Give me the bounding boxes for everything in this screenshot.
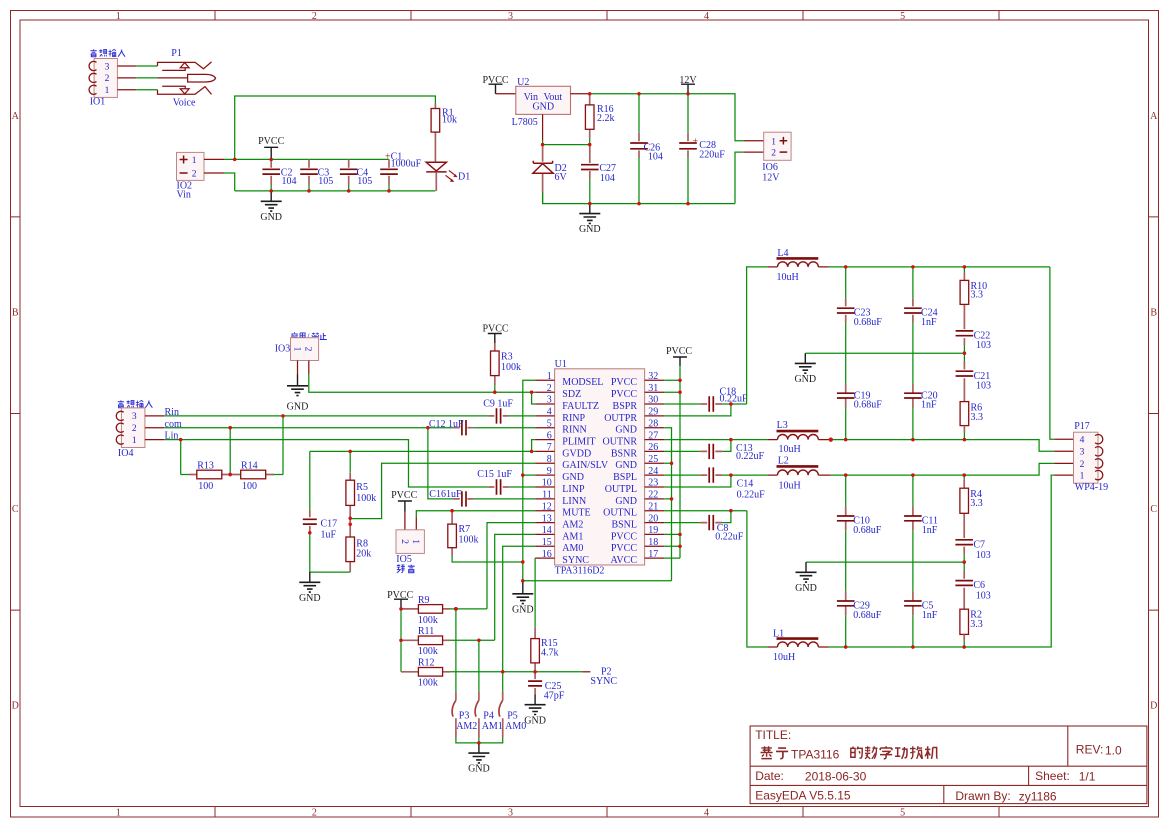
pin stubs P17 [1054, 439, 1073, 475]
wire AM1 (pin14) [495, 534, 535, 640]
ground symbol (switches) [468, 743, 489, 763]
svg-text:3.3: 3.3 [971, 289, 984, 300]
svg-text:PVCC: PVCC [666, 346, 692, 357]
wire GVDD row [310, 450, 535, 452]
svg-text:17: 17 [648, 549, 658, 560]
svg-text:Vin: Vin [177, 190, 191, 201]
junction dots overlay [179, 92, 966, 745]
resistor R7 [448, 511, 479, 556]
capacitor C11 [904, 475, 938, 591]
ground symbol (C25) [525, 695, 546, 715]
connector IO5 body [396, 530, 424, 554]
svg-text:B: B [1150, 308, 1157, 319]
svg-text:100k: 100k [356, 493, 376, 504]
wire com branch to C16 (LINN) [428, 428, 535, 499]
svg-text:C: C [12, 504, 19, 515]
wire snubber GND row (top) [805, 352, 964, 354]
capacitor C15 [477, 469, 512, 495]
capacitor C7 [955, 540, 990, 562]
resistor R1 [431, 104, 457, 163]
svg-text:GND: GND [562, 472, 584, 483]
svg-text:1uF: 1uF [321, 530, 337, 541]
svg-text:1: 1 [105, 86, 110, 96]
wire Vin+ top loop [235, 96, 436, 159]
ruler ticks left [11, 217, 21, 610]
ruler ticks top [215, 11, 999, 21]
label 启用/禁止 (enable/disable) [291, 332, 327, 343]
wire GND vertical (pins 28,25,22) [664, 428, 671, 581]
wire GND rail bottom [235, 190, 436, 192]
ground symbol (U1 MODSEL/GND) [512, 581, 533, 604]
junction dot snubber mid (bottom) [963, 560, 966, 563]
svg-text:1000uF: 1000uF [391, 159, 422, 170]
svg-text:1nF: 1nF [921, 400, 937, 411]
junction dots Vin rails [233, 158, 391, 193]
svg-text:2: 2 [312, 11, 317, 22]
svg-text:L2: L2 [778, 456, 789, 467]
svg-text:AM2: AM2 [456, 721, 477, 732]
U1 left pin stubs 1-16 [535, 380, 555, 558]
svg-text:1nF: 1nF [922, 525, 938, 536]
svg-text:B: B [12, 308, 19, 319]
svg-text:IO5: IO5 [396, 554, 412, 565]
pin stubs IO1 [117, 66, 136, 90]
svg-text:SYNC: SYNC [562, 555, 589, 566]
connector IO2 body [177, 152, 205, 180]
svg-text:104: 104 [282, 176, 297, 187]
svg-text:1: 1 [410, 539, 420, 544]
ground symbol (bottom filter) [796, 562, 817, 582]
svg-text:A: A [1150, 111, 1158, 122]
ruler ticks right [1149, 217, 1159, 610]
svg-text:GND: GND [615, 496, 637, 507]
capacitor C20 [904, 384, 938, 440]
svg-text:100k: 100k [418, 678, 438, 689]
junction dot GAIN node [349, 517, 352, 520]
svg-text:GND: GND [299, 593, 321, 604]
svg-text:105: 105 [357, 176, 372, 187]
wire com branch down to R13/R14 node [229, 428, 231, 475]
resistor R14 [231, 460, 274, 492]
wire C17/R8 bottom to GND [310, 533, 350, 572]
svg-text:2: 2 [105, 74, 110, 84]
IC U1 body [555, 369, 645, 565]
svg-text:OUTPR: OUTPR [604, 413, 637, 424]
svg-text:3: 3 [132, 412, 137, 422]
svg-text:103: 103 [976, 381, 991, 392]
svg-text:26: 26 [648, 442, 658, 453]
svg-text:AM0: AM0 [505, 721, 526, 732]
svg-text:20: 20 [648, 513, 658, 524]
wire PVCC pullup vertical [400, 609, 402, 672]
pin stubs IO2 [204, 159, 224, 173]
svg-text:103: 103 [976, 340, 991, 351]
connector IO4 pin arcs [116, 411, 123, 444]
svg-text:22: 22 [648, 490, 658, 501]
svg-text:25: 25 [648, 454, 658, 465]
svg-text:RINP: RINP [562, 413, 585, 424]
wire 12V rail [590, 94, 744, 141]
pin stubs IO6 [743, 141, 764, 152]
resistor R12 [401, 658, 450, 689]
wire R12/AM0/SYNC row to P2 [450, 671, 582, 673]
svg-text:MUTE: MUTE [562, 508, 590, 519]
resistor R3 [491, 343, 522, 392]
capacitor C18 [700, 386, 748, 411]
svg-text:5: 5 [900, 11, 905, 22]
svg-text:0.22uF: 0.22uF [720, 394, 749, 405]
svg-text:GND: GND [615, 460, 637, 471]
svg-text:D: D [12, 701, 19, 712]
capacitor C19 [837, 384, 882, 440]
capacitor C13 [700, 443, 764, 462]
svg-text:4: 4 [547, 407, 552, 418]
junction dot R13/R14 [229, 473, 232, 476]
wire BSPR row (pin30) [664, 403, 747, 405]
svg-text:D1: D1 [458, 171, 470, 182]
svg-text:PVCC: PVCC [258, 136, 284, 147]
wire pin9 GND link [523, 474, 535, 476]
svg-text:3.3: 3.3 [970, 619, 983, 630]
label 静音 (mute) [397, 565, 415, 573]
svg-text:Date:: Date: [755, 769, 784, 783]
svg-text:BSPR: BSPR [613, 401, 638, 412]
capacitor C5 [904, 591, 938, 647]
svg-text:10k: 10k [442, 115, 457, 126]
svg-text:WP4-19: WP4-19 [1075, 482, 1108, 493]
wire P4 vertical [478, 640, 480, 691]
wire SYNC (pin16) down [534, 558, 536, 628]
svg-text:IO3: IO3 [275, 344, 291, 355]
svg-text:3: 3 [105, 62, 110, 72]
inductor L1 [767, 628, 829, 663]
wire OUTNR filtered rail (L3 out) [829, 440, 1055, 452]
svg-text:GND: GND [287, 401, 309, 412]
svg-text:R12: R12 [418, 658, 435, 669]
svg-text:C9 1uF: C9 1uF [483, 399, 513, 410]
svg-text:20k: 20k [356, 549, 371, 560]
svg-text:100k: 100k [418, 646, 438, 657]
regulator U2 body [516, 86, 571, 114]
svg-text:1: 1 [116, 11, 121, 22]
IO3 pin stubs [298, 361, 309, 375]
capacitor C25 [528, 672, 565, 702]
svg-text:GND: GND [468, 764, 490, 775]
label 音频输入 (audio input) for IO1 [90, 49, 125, 56]
svg-text:2: 2 [1080, 460, 1085, 470]
svg-text:4: 4 [704, 11, 709, 22]
svg-text:23: 23 [648, 478, 658, 489]
ground symbol (C2 rail) [261, 191, 282, 211]
capacitor C24 [904, 267, 938, 384]
svg-text:C: C [1150, 504, 1157, 515]
svg-text:100k: 100k [459, 535, 479, 546]
resistor R2 [960, 609, 983, 647]
svg-text:P1: P1 [171, 48, 182, 59]
svg-text:GAIN/SLV: GAIN/SLV [562, 460, 609, 471]
svg-text:10uH: 10uH [779, 481, 801, 492]
svg-text:1: 1 [192, 156, 197, 166]
capacitor C9 [483, 399, 513, 424]
inductor L4 [767, 248, 829, 283]
wire MUTE net (IO5 to U1 pin12) [416, 511, 535, 518]
svg-text:10: 10 [542, 478, 552, 489]
label 音频输入 (audio input) for IO4 [118, 400, 153, 407]
IO4 pin stubs [145, 416, 164, 440]
capacitor C17 [303, 451, 337, 540]
IO2 minus mark [180, 172, 188, 174]
inductor L3 [767, 420, 828, 455]
svg-text:27: 27 [648, 430, 658, 441]
svg-text:13: 13 [542, 513, 552, 524]
svg-text:GND: GND [615, 425, 637, 436]
junction dot C14 node [729, 473, 732, 476]
capacitor C4 [340, 159, 372, 191]
svg-text:PLIMIT: PLIMIT [562, 437, 595, 448]
svg-text:1: 1 [547, 371, 552, 382]
ground symbol (C17/R8) [299, 572, 320, 592]
IO2 plus mark [180, 156, 188, 164]
svg-text:R5: R5 [356, 482, 368, 493]
svg-text:3: 3 [508, 11, 513, 22]
svg-text:C15 1uF: C15 1uF [477, 469, 512, 480]
wire OUTNL row (pin21) [664, 510, 747, 512]
svg-text:0.22uF: 0.22uF [737, 490, 766, 501]
svg-text:C14: C14 [737, 479, 754, 490]
svg-text:C12 1uF: C12 1uF [429, 419, 464, 430]
svg-text:1: 1 [132, 436, 137, 446]
svg-text:U2: U2 [517, 77, 529, 88]
wire MODSEL to GND vertical [523, 380, 535, 581]
LED D1 [426, 162, 470, 191]
title text 基于TPA3116的数字功放机 [761, 746, 789, 758]
resistor R15 [531, 628, 559, 672]
svg-text:A: A [12, 111, 20, 122]
zener diode D2 [533, 145, 568, 193]
svg-text:PVCC: PVCC [611, 531, 637, 542]
junction dot C8 node [729, 509, 732, 512]
svg-text:12V: 12V [762, 172, 780, 183]
wire Vin+ rail [224, 158, 389, 160]
connector IO1 body [94, 59, 117, 98]
switch P5 [499, 691, 526, 737]
junction dots SDZ [493, 391, 496, 394]
svg-text:PVCC: PVCC [611, 377, 637, 388]
svg-text:OUTNL: OUTNL [603, 508, 637, 519]
svg-text:2018-06-30: 2018-06-30 [805, 770, 867, 784]
inductor L2 [767, 456, 830, 492]
resistor R11 [401, 626, 450, 657]
svg-text:GND: GND [579, 224, 601, 235]
svg-text:9: 9 [547, 466, 552, 477]
audio jack P1 symbol [158, 62, 216, 95]
svg-text:TPA3116: TPA3116 [791, 747, 840, 761]
svg-text:16: 16 [542, 549, 552, 560]
wire PVCC vertical (pins 32,31,19,18,17) [664, 366, 680, 558]
wire R11 to AM1 [450, 639, 495, 641]
svg-text:GND: GND [532, 102, 554, 113]
svg-text:10uH: 10uH [773, 652, 795, 663]
U1 right pin numbers [648, 371, 658, 560]
wire OUTNR row (pin27 to L3) [664, 439, 767, 441]
capacitor C29 [837, 591, 882, 647]
capacitor C6 [955, 562, 990, 609]
pin stub U2 Vout [571, 93, 590, 95]
svg-text:C161uF: C161uF [429, 489, 462, 500]
svg-text:AM1: AM1 [562, 531, 583, 542]
wire Lin to C15 (LINP) [164, 440, 535, 487]
svg-text:SDZ: SDZ [562, 389, 581, 400]
svg-text:R7: R7 [459, 524, 471, 535]
svg-text:BSPL: BSPL [613, 472, 637, 483]
junction dot C18 node [729, 402, 732, 405]
svg-text:EasyEDA V5.5.15: EasyEDA V5.5.15 [755, 789, 851, 803]
svg-text:100k: 100k [418, 615, 438, 626]
wire AM2 (pin13) [487, 523, 535, 609]
wire P5 vertical [502, 672, 504, 692]
resistor R5 [346, 451, 376, 518]
svg-text:R9: R9 [418, 595, 430, 606]
resistor R4 [960, 475, 983, 538]
wire Lin branch down to R13 [180, 440, 182, 475]
svg-text:0.68uF: 0.68uF [854, 400, 883, 411]
junction dots regulator [541, 92, 690, 205]
title block frame [750, 726, 1147, 804]
connector IO6 body [764, 132, 791, 160]
junction dots GND vertical [521, 473, 524, 582]
svg-text:PVCC: PVCC [611, 543, 637, 554]
svg-text:GND: GND [794, 374, 816, 385]
capacitor C23 [837, 267, 882, 384]
wire IO6 pin2 [735, 152, 743, 204]
svg-text:2: 2 [132, 424, 137, 434]
junction dot C13 node [729, 438, 732, 441]
svg-text:5: 5 [900, 808, 905, 819]
svg-text:1.0: 1.0 [1105, 744, 1122, 758]
svg-text:Voice: Voice [173, 97, 196, 108]
svg-text:32: 32 [648, 371, 658, 382]
svg-text:29: 29 [648, 407, 658, 418]
svg-text:7: 7 [547, 442, 552, 453]
svg-text:1nF: 1nF [922, 610, 938, 621]
svg-text:0.22uF: 0.22uF [715, 531, 744, 542]
svg-text:1: 1 [771, 137, 776, 147]
U1 left pin names [562, 377, 609, 566]
svg-text:4.7k: 4.7k [541, 648, 559, 659]
svg-text:SYNC: SYNC [590, 676, 617, 687]
wire OUTPR link (pin29) [664, 404, 731, 416]
capacitor C14 [700, 467, 765, 500]
svg-text:GND: GND [524, 715, 546, 726]
svg-text:LINP: LINP [562, 484, 585, 495]
pin stub U2 GND [542, 114, 544, 140]
svg-text:100: 100 [198, 481, 213, 492]
svg-text:47pF: 47pF [544, 691, 565, 702]
svg-text:1: 1 [291, 347, 301, 352]
wire regulator bottom rail [543, 193, 735, 204]
wire BSNL row (pin20) [664, 511, 731, 523]
wire GAIN/SLV link [350, 463, 535, 518]
svg-text:3.3: 3.3 [971, 412, 984, 423]
svg-text:103: 103 [976, 550, 991, 561]
svg-text:2: 2 [312, 808, 317, 819]
resistor R13 [189, 460, 230, 492]
svg-text:RINN: RINN [562, 425, 586, 436]
ground symbol (regulator) [579, 204, 600, 224]
wire OUTPL link (pin23) [664, 475, 731, 487]
svg-text:3.3: 3.3 [970, 498, 983, 509]
svg-text:15: 15 [542, 537, 552, 548]
svg-text:0.68uF: 0.68uF [854, 317, 883, 328]
wire OUTPR filtered rail (L4 out) [829, 266, 1050, 268]
svg-text:AVCC: AVCC [611, 555, 638, 566]
svg-text:21: 21 [648, 501, 658, 512]
junction dots GND vertical [670, 462, 673, 465]
junction dot C17 bottom [308, 531, 311, 534]
svg-text:5: 5 [547, 418, 552, 429]
capacitor C10 [837, 475, 882, 591]
capacitor C21 [956, 353, 991, 401]
wire OUTPL to L2 [731, 474, 768, 476]
svg-text:6: 6 [547, 430, 552, 441]
svg-text:104: 104 [600, 173, 615, 184]
U1 left pin numbers [542, 371, 552, 560]
connector IO1 pin arcs [89, 61, 96, 94]
svg-text:3: 3 [1080, 448, 1085, 458]
svg-text:R11: R11 [418, 626, 434, 637]
ground symbol (top filter) [795, 353, 816, 373]
wire SDZ net (IO3 to U1 pin2) [309, 374, 535, 392]
svg-text:30: 30 [648, 395, 658, 406]
svg-text:24: 24 [648, 466, 658, 477]
junction dot switch row [477, 741, 480, 744]
svg-text:100k: 100k [501, 362, 521, 373]
wire Rin to C9 and RINP [164, 415, 535, 417]
svg-text:U1: U1 [555, 359, 567, 370]
capacitor C1 polarized [380, 151, 421, 191]
capacitor C28 polarized [679, 94, 725, 204]
wire Vin- down [224, 173, 235, 191]
svg-text:12: 12 [542, 501, 552, 512]
wire Rin branch down to R14 [282, 416, 284, 475]
svg-text:1: 1 [116, 808, 121, 819]
capacitor C22 [956, 331, 991, 354]
svg-text:LINN: LINN [562, 496, 586, 507]
svg-text:Sheet:: Sheet: [1035, 769, 1070, 783]
svg-text:OUTPL: OUTPL [605, 484, 637, 495]
svg-text:IO1: IO1 [90, 96, 106, 107]
svg-text:BSNR: BSNR [611, 448, 637, 459]
svg-text:18: 18 [648, 537, 658, 548]
svg-text:2: 2 [192, 170, 197, 180]
capacitor C2 [262, 159, 296, 191]
junction dot MUTE/R7 [450, 509, 453, 512]
svg-text:4: 4 [1080, 436, 1085, 446]
svg-text:AM0: AM0 [562, 543, 583, 554]
svg-text:AM2: AM2 [562, 520, 583, 531]
switch P4 [475, 691, 503, 737]
wire IO1 to P1 (3 nets) [136, 66, 157, 90]
resistor R8 [346, 519, 371, 573]
wire switch bottom row [456, 738, 503, 743]
resistor R10 [960, 267, 987, 329]
svg-text:100: 100 [242, 481, 257, 492]
svg-text:C17: C17 [321, 519, 338, 530]
svg-text:GND: GND [795, 583, 817, 594]
connector IO3 body [291, 338, 319, 361]
svg-text:R14: R14 [241, 460, 258, 471]
svg-text:31: 31 [648, 383, 658, 394]
